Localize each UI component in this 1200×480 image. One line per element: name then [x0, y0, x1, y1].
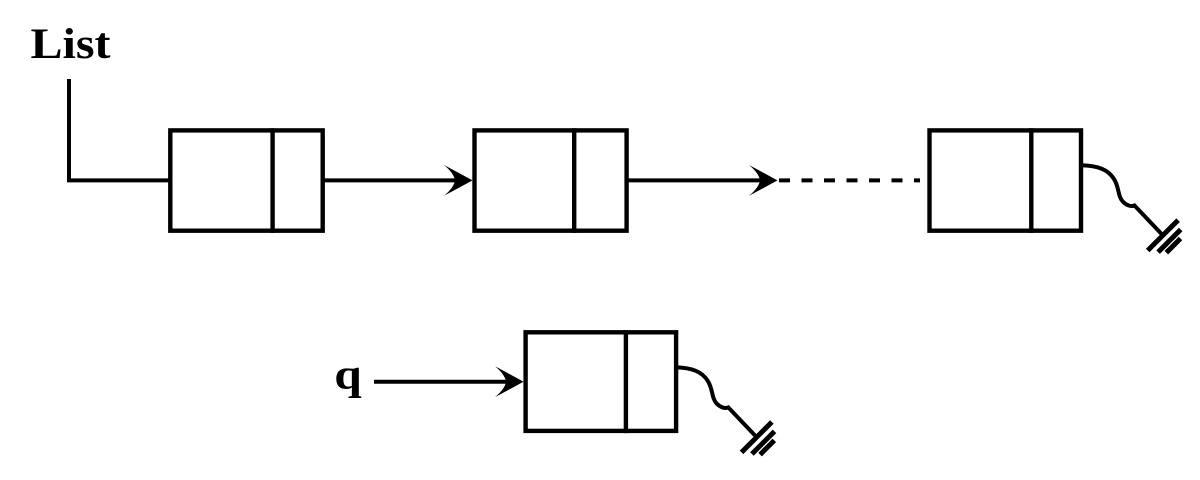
dashed continuation wire: [779, 178, 920, 182]
ground symbol bottom: [742, 422, 775, 455]
svg-text:List: List: [31, 21, 112, 68]
ground symbol top: [1148, 220, 1181, 253]
arrow node1 to node2 head: [444, 165, 473, 196]
arrow node2 onward shaft: [627, 178, 761, 182]
arrow node2 onward head: [749, 165, 778, 196]
null squiggle from node 4: [675, 367, 757, 437]
node box 4 divider: [624, 330, 628, 433]
node box 2 divider: [572, 128, 576, 233]
node box 4: [526, 332, 677, 431]
arrow q to node shaft: [374, 380, 507, 384]
node box 3: [930, 130, 1082, 230]
wire from List to node 1: [69, 79, 170, 180]
svg-text:q: q: [334, 351, 362, 398]
arrow node1 to node2 shaft: [323, 178, 456, 182]
null squiggle from node 3: [1082, 165, 1164, 235]
node box 2: [475, 130, 627, 230]
node box 1 divider: [270, 128, 274, 233]
arrow q to node head: [495, 366, 524, 397]
node box 1: [170, 130, 322, 230]
node box 3 divider: [1029, 128, 1033, 233]
